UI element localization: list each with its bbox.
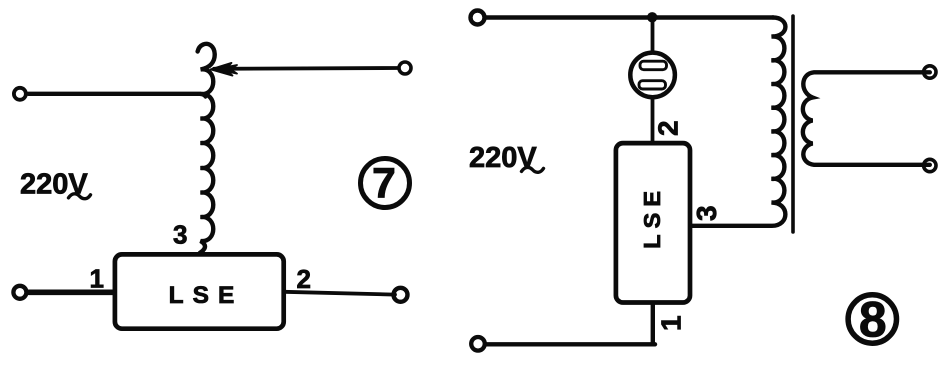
svg-text:2: 2 (297, 264, 311, 294)
svg-text:LSE: LSE (169, 282, 244, 309)
svg-text:220V: 220V (469, 142, 537, 174)
svg-text:8: 8 (859, 292, 887, 348)
svg-text:3: 3 (173, 220, 187, 250)
svg-text:LSE: LSE (639, 185, 665, 249)
svg-text:7: 7 (372, 160, 396, 208)
svg-text:3: 3 (691, 205, 722, 221)
svg-text:1: 1 (90, 264, 104, 294)
svg-text:1: 1 (656, 315, 687, 331)
svg-text:2: 2 (653, 120, 684, 136)
svg-text:220V: 220V (20, 169, 88, 201)
